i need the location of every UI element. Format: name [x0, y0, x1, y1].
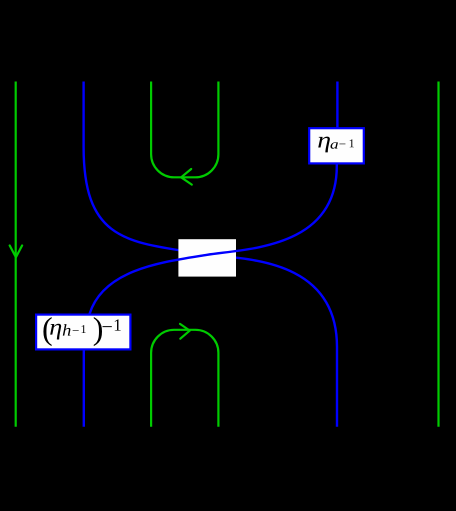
svg-text:a: a: [330, 137, 339, 152]
wire: right green identity strand: [437, 82, 439, 427]
node: white crossing rectangle: [178, 239, 236, 276]
wire: blue strand 2 (over-crossing, from eta box to bottom-left): [84, 82, 338, 427]
svg-text:−: −: [101, 316, 112, 338]
box: eta_{a^-1} label node: [309, 128, 364, 164]
svg-text:1: 1: [113, 316, 122, 335]
arrow: rightward on lower cap top: [180, 324, 190, 339]
arrow: leftward on upper cup bottom: [181, 169, 192, 185]
wire: blue strand 1 (under-crossing, top-left to bottom-right): [84, 82, 337, 427]
svg-text:1: 1: [349, 136, 355, 150]
wire: upper green cup (counit): [151, 82, 218, 178]
wire: lower green cap (unit): [151, 330, 218, 427]
wire: left green identity strand: [15, 82, 17, 427]
arrow: downward on left green strand: [10, 246, 22, 258]
box: (eta_{h^-1})^{-1} label node: [36, 310, 130, 349]
svg-text:h: h: [62, 321, 71, 340]
svg-text:−: −: [72, 323, 79, 338]
svg-text:−: −: [339, 136, 346, 151]
svg-text:η: η: [49, 315, 62, 340]
svg-text:1: 1: [80, 322, 86, 336]
